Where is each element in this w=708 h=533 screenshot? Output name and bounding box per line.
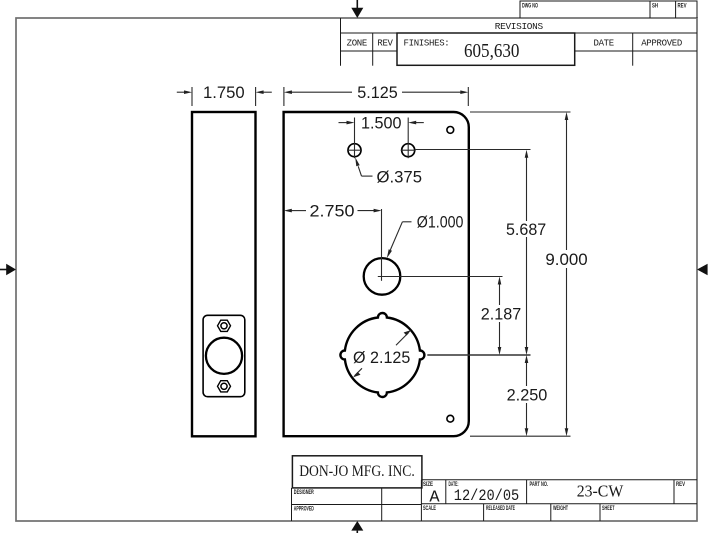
dim 2.250 bbox=[526, 362, 528, 430]
svg-text:APPROVED: APPROVED bbox=[641, 39, 682, 49]
svg-text:SIZE: SIZE bbox=[423, 482, 433, 488]
revisions table labels bbox=[347, 22, 682, 49]
svg-text:SH: SH bbox=[652, 3, 658, 9]
finishes box bbox=[397, 33, 575, 65]
svg-text:2.750: 2.750 bbox=[310, 202, 355, 221]
svg-text:PART NO.: PART NO. bbox=[530, 482, 549, 488]
hex nut top bbox=[218, 320, 231, 331]
dim 2.750 bbox=[291, 209, 382, 258]
svg-text:FINISHES:: FINISHES: bbox=[404, 39, 450, 49]
registration arrow left bbox=[0, 264, 16, 275]
ext line bottom edge to 9.000 bbox=[470, 435, 571, 437]
svg-text:Ø1.000: Ø1.000 bbox=[417, 213, 464, 232]
svg-text:ZONE: ZONE bbox=[347, 39, 367, 49]
registration arrow right bbox=[697, 264, 708, 275]
svg-text:DON-JO MFG. INC.: DON-JO MFG. INC. bbox=[299, 463, 415, 480]
svg-text:DESIGNER: DESIGNER bbox=[294, 490, 314, 496]
title block tiny labels bbox=[294, 482, 685, 513]
registration arrow top bbox=[351, 0, 363, 18]
dim dia 2.125 inside big hole bbox=[353, 330, 411, 377]
svg-text:1.500: 1.500 bbox=[361, 114, 402, 133]
dim 5.125 bbox=[284, 87, 468, 106]
svg-text:REV: REV bbox=[377, 39, 393, 49]
svg-text:REVISIONS: REVISIONS bbox=[495, 22, 543, 32]
dim 9.000 bbox=[566, 119, 568, 430]
svg-text:2.187: 2.187 bbox=[481, 304, 521, 323]
hex nut bottom bbox=[218, 381, 231, 392]
svg-text:9.000: 9.000 bbox=[545, 250, 587, 269]
faceplate latch circle bbox=[206, 338, 242, 374]
svg-text:Ø 2.125: Ø 2.125 bbox=[353, 348, 410, 367]
company name box bbox=[292, 456, 422, 488]
dim 2.187 bbox=[499, 283, 501, 349]
svg-text:Ø.375: Ø.375 bbox=[377, 167, 423, 186]
svg-text:DATE: DATE bbox=[593, 39, 613, 49]
ext line 1.000 hole to 2.187 bbox=[378, 276, 503, 278]
svg-text:REV: REV bbox=[676, 482, 685, 488]
title block bbox=[292, 480, 698, 521]
cylinder hole 1.000 bbox=[364, 258, 401, 295]
svg-text:605,630: 605,630 bbox=[464, 40, 519, 62]
svg-text:1.750: 1.750 bbox=[203, 83, 245, 102]
svg-text:5.125: 5.125 bbox=[357, 83, 398, 102]
ext line big hole to 2.250 bbox=[427, 354, 530, 356]
dwg-no strip boxes bbox=[520, 1, 697, 18]
main plate outline bbox=[284, 112, 469, 436]
side plate (narrow view) bbox=[192, 112, 256, 436]
big hole 2.125 with tabs bbox=[340, 313, 424, 397]
svg-text:DWG NO: DWG NO bbox=[522, 3, 538, 9]
dim 1.500 bbox=[339, 118, 424, 159]
svg-text:12/20/05: 12/20/05 bbox=[454, 487, 519, 505]
svg-text:A: A bbox=[429, 489, 440, 508]
registration arrow bottom bbox=[351, 521, 363, 533]
screw hole right .375 bbox=[401, 144, 416, 157]
leader dia 1.000 bbox=[387, 213, 464, 259]
svg-text:RELEASED DATE: RELEASED DATE bbox=[486, 506, 515, 512]
svg-text:23-CW: 23-CW bbox=[577, 482, 624, 501]
svg-text:WEIGHT: WEIGHT bbox=[553, 506, 568, 512]
screw hole left .375 bbox=[347, 144, 362, 157]
svg-text:SHEET: SHEET bbox=[602, 506, 615, 512]
leader dia .375 bbox=[355, 157, 422, 186]
ext line top edge to 9.000 bbox=[470, 111, 571, 113]
dwg-no strip labels bbox=[522, 3, 687, 9]
svg-text:5.687: 5.687 bbox=[506, 220, 546, 239]
ext line small hole to 5.687 bbox=[415, 149, 531, 151]
svg-text:REV: REV bbox=[678, 3, 687, 9]
faceplate cutout bbox=[203, 315, 245, 396]
svg-text:APPROVED: APPROVED bbox=[294, 507, 314, 513]
dim 5.687 bbox=[526, 157, 528, 349]
dim 1.750 bbox=[177, 87, 272, 106]
pilot hole top right bbox=[447, 126, 454, 133]
svg-text:2.250: 2.250 bbox=[507, 385, 548, 404]
pilot hole bottom right bbox=[447, 415, 454, 422]
revisions table bbox=[341, 18, 698, 66]
